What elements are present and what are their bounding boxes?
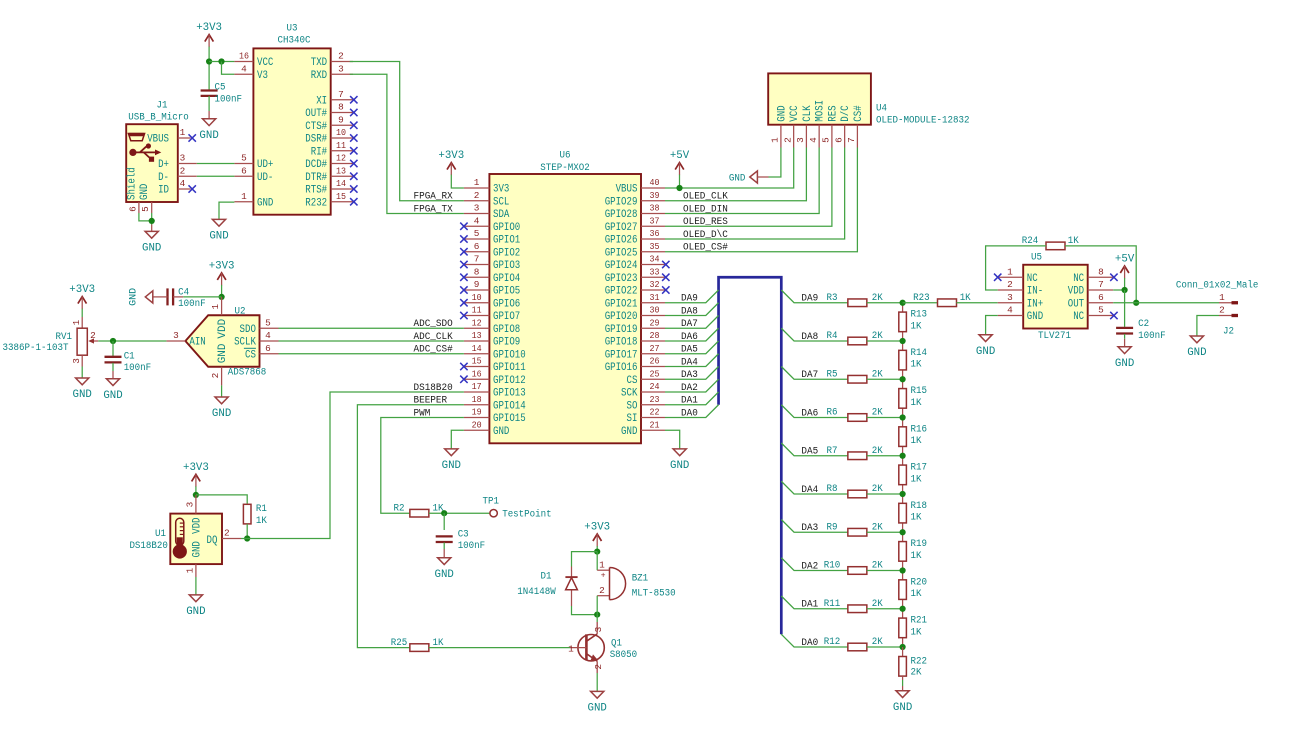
junction [594, 549, 600, 555]
wire [781, 328, 848, 341]
label J2 value [1176, 280, 1259, 292]
resistor R9 [827, 522, 883, 536]
label U4 value [876, 116, 970, 127]
wire [867, 570, 903, 572]
pin 16 U3 VCC [234, 51, 273, 69]
resistor R8 [827, 484, 883, 498]
net label ADC_SDO [414, 319, 453, 330]
wire [451, 430, 464, 449]
svg-text:37: 37 [650, 215, 660, 226]
resistor R24 [1022, 236, 1079, 250]
resistor R17 [899, 456, 927, 494]
wire [781, 558, 848, 571]
svg-text:1K: 1K [911, 513, 922, 524]
svg-text:32: 32 [650, 279, 660, 290]
wire [867, 340, 903, 342]
svg-text:GND: GND [588, 703, 608, 715]
net label DA7 (right) [801, 370, 818, 381]
wire [867, 608, 903, 610]
net label OLED_RES [683, 217, 728, 228]
wire [781, 367, 848, 380]
label U2 ref [235, 306, 246, 317]
svg-text:R2: R2 [394, 503, 405, 514]
ground (Q1) [588, 691, 608, 714]
pin 2 U5 IN- [998, 279, 1043, 297]
wire [1113, 289, 1124, 291]
ground (C2) [1115, 339, 1135, 370]
global label GND (C4) [129, 288, 153, 306]
net label FPGA_RX [414, 192, 453, 203]
ground (U2) [212, 397, 232, 420]
svg-text:1K: 1K [256, 516, 267, 527]
pin 37 U6 GPIO27 [605, 215, 665, 233]
resistor R16 [899, 418, 927, 456]
wire [429, 647, 570, 649]
pin 3 U1 VDD [184, 495, 203, 534]
wire [197, 163, 235, 165]
svg-text:GPIO7: GPIO7 [493, 311, 520, 323]
junction [594, 612, 600, 618]
svg-text:2: 2 [593, 664, 604, 670]
wire [197, 175, 235, 177]
wire [781, 405, 848, 418]
svg-text:GPIO26: GPIO26 [605, 235, 638, 247]
pin 7 U3 XI [316, 89, 357, 107]
svg-text:100nF: 100nF [124, 363, 152, 374]
resistor R23 [913, 293, 971, 307]
wire [221, 285, 223, 297]
svg-text:GND: GND [1027, 311, 1044, 323]
net label BEEPER [414, 396, 448, 407]
svg-text:DA1: DA1 [681, 396, 698, 407]
pin 21 U6 GND [621, 419, 665, 437]
svg-text:U4: U4 [876, 103, 887, 114]
wire [867, 302, 903, 304]
pin 5 U3 UD+ [234, 153, 273, 171]
svg-text:35: 35 [650, 241, 660, 252]
pin 4 U3 V3 [234, 63, 268, 81]
pin (C4 right) [173, 296, 183, 298]
svg-text:C3: C3 [458, 529, 469, 540]
net label OLED_DIN [683, 204, 728, 215]
svg-text:R19: R19 [911, 539, 928, 550]
svg-text:4: 4 [1007, 305, 1013, 316]
svg-text:12: 12 [472, 317, 482, 328]
pin 2 J1 D- [158, 165, 197, 183]
pin 5 U2 SDO [240, 317, 279, 335]
svg-text:AIN: AIN [189, 337, 205, 349]
svg-text:NC: NC [1073, 311, 1084, 323]
junction [110, 338, 116, 344]
svg-text:5: 5 [140, 206, 151, 212]
diode D1 1N4148W [517, 567, 577, 607]
svg-text:100nF: 100nF [178, 299, 206, 310]
svg-text:ADC_CS#: ADC_CS# [414, 345, 453, 356]
svg-text:DA4: DA4 [681, 357, 698, 368]
svg-text:STEP-MXO2: STEP-MXO2 [540, 163, 590, 174]
net label DA1 (right) [801, 600, 818, 611]
svg-text:DA5: DA5 [681, 345, 698, 356]
svg-text:U6: U6 [560, 151, 571, 162]
label U1 value [129, 541, 168, 552]
ground (RV1) [73, 378, 93, 401]
net label DA9 (right) [801, 294, 818, 305]
svg-text:Conn_01x02_Male: Conn_01x02_Male [1176, 280, 1259, 292]
USB receptacle icon [128, 133, 144, 141]
svg-text:R17: R17 [911, 463, 928, 474]
svg-text:ADS7868: ADS7868 [228, 368, 267, 379]
power symbol +3V3 (U2) [209, 260, 235, 285]
net label DA3 (right) [801, 523, 818, 534]
svg-text:14: 14 [472, 343, 482, 354]
svg-text:BEEPER: BEEPER [414, 396, 448, 407]
svg-text:GND: GND [1187, 347, 1207, 359]
svg-text:RXD: RXD [311, 70, 328, 82]
pin 4 J1 ID [158, 178, 196, 196]
svg-text:16: 16 [472, 368, 482, 379]
pin 8 U3 OUT# [305, 102, 357, 120]
net label DA8 (left) [681, 306, 698, 317]
svg-text:GND: GND [442, 460, 462, 472]
pin 10 U3 DSR# [305, 127, 357, 145]
svg-text:GND: GND [729, 174, 746, 185]
pin 2 U6 SCL [464, 190, 509, 208]
svg-text:GND: GND [73, 389, 93, 401]
wire [98, 340, 166, 342]
svg-text:CS: CS [245, 349, 256, 361]
wire [1197, 316, 1219, 337]
wire [665, 405, 719, 418]
svg-text:FPGA_RX: FPGA_RX [414, 192, 453, 203]
svg-text:VBUS: VBUS [616, 184, 638, 196]
svg-text:+5V: +5V [670, 150, 690, 162]
pin 4 U5 GND [998, 305, 1044, 323]
svg-text:100nF: 100nF [1138, 331, 1166, 342]
svg-text:16: 16 [239, 51, 249, 62]
pin 4 U6 GPIO0 [460, 215, 520, 233]
svg-text:27: 27 [650, 343, 660, 354]
connector J2 pin 2 [1219, 305, 1238, 317]
svg-text:GPIO6: GPIO6 [493, 298, 520, 310]
svg-text:NC: NC [1027, 273, 1038, 285]
wire [596, 673, 598, 691]
svg-text:3: 3 [338, 63, 344, 74]
capacitor C1 [105, 351, 152, 374]
svg-text:1K: 1K [911, 589, 922, 600]
pin 25 U6 CS [627, 368, 666, 386]
svg-text:GND: GND [435, 569, 455, 581]
capacitor C2 [1116, 319, 1166, 342]
svg-text:DA7: DA7 [681, 319, 698, 330]
pin 20 U6 GND [464, 419, 510, 437]
svg-text:ADC_CLK: ADC_CLK [414, 332, 453, 343]
pin 2 U1 DQ [207, 528, 242, 547]
svg-text:GPIO9: GPIO9 [493, 337, 520, 349]
wire [781, 634, 848, 647]
op-amp U5 TLV271 body [1023, 265, 1087, 329]
wire [112, 363, 114, 371]
ground (U5 GND) [976, 335, 996, 358]
svg-text:R15: R15 [911, 386, 928, 397]
wire [665, 392, 719, 405]
svg-text:14: 14 [336, 178, 346, 189]
wire [665, 341, 719, 354]
svg-text:DS18B20: DS18B20 [414, 383, 453, 394]
svg-text:USB_B_Micro: USB_B_Micro [128, 112, 189, 124]
svg-text:DA1: DA1 [801, 600, 818, 611]
svg-text:1: 1 [1219, 292, 1225, 303]
pin 1 U3 GND [234, 191, 273, 209]
svg-text:1K: 1K [911, 360, 922, 371]
wire [781, 290, 848, 303]
resistor R25 [391, 638, 444, 652]
net label DA1 (left) [681, 396, 698, 407]
svg-text:GND: GND [893, 702, 913, 714]
pin 29 U6 GPIO19 [605, 317, 665, 335]
junction [244, 535, 250, 541]
svg-text:GPIO17: GPIO17 [605, 349, 638, 361]
label C5 value [215, 83, 243, 106]
svg-text:7: 7 [338, 89, 344, 100]
module U4 OLED body [768, 73, 871, 124]
svg-text:R13: R13 [911, 310, 928, 321]
pin 13 U6 GPIO9 [464, 330, 520, 348]
wire [241, 392, 464, 539]
wire [139, 213, 152, 221]
pin 1 U6 3V3 [464, 177, 509, 195]
label J1 ref [157, 100, 168, 111]
svg-text:1K: 1K [911, 436, 922, 447]
pin 2 U3 TXD [311, 51, 353, 69]
wire [665, 328, 719, 341]
svg-text:GPIO28: GPIO28 [605, 209, 638, 221]
wire [183, 296, 221, 298]
svg-text:VDD: VDD [192, 517, 204, 534]
svg-text:100nF: 100nF [215, 94, 243, 105]
svg-text:R25: R25 [391, 638, 408, 649]
net label DA9 (left) [681, 294, 698, 305]
pin 14 U6 GPIO10 [464, 343, 526, 361]
svg-text:31: 31 [650, 292, 660, 303]
pin 3 U3 RXD [311, 63, 353, 81]
ADC U2 ADS7868 body [185, 315, 259, 367]
USB trident icon [129, 143, 161, 161]
net label OLED_D\C [683, 229, 728, 241]
svg-text:RV1: RV1 [56, 332, 73, 343]
wire [208, 96, 210, 111]
pin 17 U6 GPIO13 [464, 381, 526, 399]
svg-text:40: 40 [650, 177, 660, 188]
svg-text:DCD#: DCD# [305, 159, 327, 171]
resistor R14 [899, 341, 927, 379]
svg-text:VCC: VCC [257, 57, 274, 69]
pin 6 U3 UD- [234, 165, 273, 183]
svg-text:26: 26 [650, 356, 660, 367]
svg-text:4: 4 [241, 63, 247, 74]
wire [665, 148, 806, 201]
svg-text:2: 2 [474, 190, 480, 201]
wire [1124, 290, 1126, 327]
pin 18 U6 GPIO14 [464, 394, 526, 412]
label U6 value [540, 163, 590, 174]
svg-text:GPIO18: GPIO18 [605, 337, 638, 349]
svg-text:R23: R23 [913, 293, 930, 304]
svg-text:SDA: SDA [493, 209, 510, 221]
svg-text:R232: R232 [305, 197, 327, 209]
svg-text:15: 15 [472, 356, 482, 367]
wire [903, 302, 938, 304]
svg-text:SCK: SCK [621, 388, 638, 400]
pin 22 U6 SI [627, 407, 666, 425]
svg-text:D+: D+ [158, 159, 169, 171]
pin 38 U6 GPIO28 [605, 203, 665, 221]
wire [443, 543, 445, 550]
svg-text:GPIO10: GPIO10 [493, 349, 526, 361]
junction [900, 529, 906, 535]
pin 15 U6 GPIO11 [460, 356, 526, 374]
svg-text:8: 8 [474, 266, 480, 277]
wire [665, 148, 832, 227]
RV1 wiper arrow [88, 330, 98, 343]
svg-text:C2: C2 [1138, 319, 1149, 330]
pin 34 U6 GPIO24 [605, 254, 670, 272]
svg-text:11: 11 [472, 305, 482, 316]
pin 13 U3 DTR# [305, 165, 357, 183]
pin 27 U6 GPIO17 [605, 343, 665, 361]
svg-text:1: 1 [241, 191, 247, 202]
svg-text:6: 6 [1098, 292, 1104, 303]
svg-text:3: 3 [184, 501, 195, 507]
svg-text:CS#: CS# [853, 105, 865, 122]
svg-text:RES: RES [827, 105, 839, 122]
svg-text:7: 7 [1098, 279, 1104, 290]
net label DA2 (right) [801, 561, 818, 572]
svg-text:MOSI: MOSI [815, 100, 827, 122]
net label DA7 (left) [681, 319, 698, 330]
thermometer icon [173, 518, 187, 558]
svg-text:34: 34 [650, 254, 660, 265]
svg-text:5: 5 [474, 228, 480, 239]
wire [151, 213, 153, 225]
pin 24 U6 SCK [621, 381, 665, 399]
ground (U6 pin20) [442, 449, 462, 472]
pin 5 U6 GPIO1 [460, 228, 520, 246]
pin 7 U4 CS# [846, 105, 865, 147]
transistor Q1 S8050 [568, 622, 637, 673]
svg-text:4: 4 [808, 137, 819, 143]
junction [218, 58, 224, 64]
svg-text:DA5: DA5 [801, 447, 818, 458]
svg-text:DTR#: DTR# [305, 172, 327, 184]
svg-text:GPIO23: GPIO23 [605, 273, 638, 285]
svg-text:GPIO1: GPIO1 [493, 235, 521, 247]
svg-text:TestPoint: TestPoint [502, 509, 552, 521]
svg-text:3: 3 [71, 358, 82, 364]
svg-text:R16: R16 [911, 424, 928, 435]
resistor R11 [824, 599, 883, 613]
svg-text:DA0: DA0 [681, 408, 698, 419]
svg-text:1K: 1K [911, 551, 922, 562]
wire [1124, 334, 1126, 339]
pin 15 U3 R232 [305, 191, 357, 209]
resistor R5 [827, 369, 883, 383]
svg-text:+3V3: +3V3 [584, 521, 610, 533]
power symbol +3V3 (U1) [183, 462, 209, 487]
pin 4 U2 SCLK [234, 330, 278, 348]
svg-text:GPIO21: GPIO21 [605, 298, 638, 310]
wire [665, 367, 719, 380]
IC U3 CH340C body [253, 48, 330, 214]
net label DS18B20 [414, 383, 453, 394]
label U2 value [228, 368, 267, 379]
capacitor C3 [436, 529, 486, 552]
svg-text:DA9: DA9 [681, 294, 698, 305]
svg-text:3: 3 [173, 330, 179, 341]
ground (C3) [435, 549, 455, 581]
pin 12 U3 DCD# [305, 153, 357, 171]
svg-text:+5V: +5V [1115, 253, 1135, 265]
ground (J1) [142, 225, 162, 255]
svg-text:R8: R8 [827, 484, 838, 495]
svg-text:GPIO15: GPIO15 [493, 413, 526, 425]
svg-text:5: 5 [1098, 305, 1104, 316]
wire [381, 418, 464, 514]
ground (U1) [186, 595, 206, 618]
svg-text:1: 1 [599, 559, 605, 570]
svg-text:4: 4 [474, 215, 480, 226]
svg-text:CS: CS [627, 375, 638, 387]
svg-text:GPIO13: GPIO13 [493, 388, 526, 400]
power symbol +3V3 (U3/C5) [196, 22, 222, 47]
wire [956, 302, 997, 304]
resistor R20 [899, 571, 927, 609]
svg-text:GND: GND [670, 460, 690, 472]
svg-text:GPIO25: GPIO25 [605, 247, 638, 259]
net label DA0 (right) [801, 638, 818, 649]
svg-text:SCL: SCL [493, 196, 509, 208]
svg-text:13: 13 [336, 165, 346, 176]
svg-text:1K: 1K [911, 398, 922, 409]
wire [221, 385, 223, 397]
resistor R6 [827, 408, 883, 422]
svg-text:BZ1: BZ1 [632, 574, 649, 585]
label U5 ref [1031, 253, 1042, 264]
svg-text:GPIO20: GPIO20 [605, 311, 638, 323]
svg-text:13: 13 [472, 330, 482, 341]
svg-text:CTS#: CTS# [305, 121, 327, 133]
label RV1 value [3, 343, 69, 354]
wire [596, 615, 598, 622]
svg-text:39: 39 [650, 190, 660, 201]
svg-text:GND: GND [209, 231, 229, 243]
resistor R4 [827, 331, 883, 345]
wire [867, 646, 903, 648]
pin 35 U6 GPIO25 [605, 241, 665, 259]
svg-text:C1: C1 [124, 351, 135, 362]
svg-text:R1: R1 [256, 504, 267, 515]
wire [357, 405, 464, 648]
svg-text:GND: GND [192, 541, 204, 558]
pin 12 U6 GPIO8 [464, 317, 520, 335]
svg-text:2: 2 [599, 585, 605, 596]
svg-text:10: 10 [472, 292, 482, 303]
svg-text:Q1: Q1 [611, 638, 622, 649]
svg-text:R6: R6 [827, 408, 838, 419]
svg-text:DA2: DA2 [681, 383, 698, 394]
ground (J2) [1187, 336, 1207, 359]
pin 9 U6 GPIO5 [460, 279, 520, 297]
pin 32 U6 GPIO22 [605, 279, 670, 297]
